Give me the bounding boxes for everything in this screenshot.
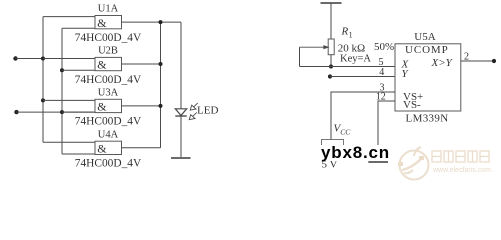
svg-text:Key=A: Key=A bbox=[340, 53, 371, 64]
wire rail to R1 top bbox=[330, 3, 332, 39]
node A input terminal dot bbox=[13, 56, 17, 60]
wire U3A bottom input pin (part of net B) bbox=[62, 111, 95, 113]
wire net A horizontal bbox=[16, 58, 96, 60]
watermark ybx8.cn bbox=[321, 145, 390, 161]
potentiometer R1 body bbox=[328, 39, 334, 55]
wire U3A output bbox=[122, 105, 161, 107]
svg-text:CC: CC bbox=[340, 127, 351, 136]
VCC source box bbox=[322, 140, 344, 158]
potentiometer R1 wiper arrow bbox=[300, 46, 329, 49]
junction bus2 x U2B bottom pin bbox=[60, 68, 64, 72]
svg-text:74HC00D_4V: 74HC00D_4V bbox=[75, 158, 142, 170]
power rail bar top of R1 bbox=[321, 2, 342, 4]
junction R1 bottom x pin5 wire bbox=[329, 65, 333, 69]
svg-text:4: 4 bbox=[379, 67, 384, 78]
wire U3A top input pin bbox=[43, 99, 95, 101]
wire U1A top input pin bbox=[43, 16, 95, 18]
elecfans logo chinese characters bbox=[432, 151, 489, 162]
gate U3A box bbox=[95, 99, 122, 112]
svg-text:X>Y: X>Y bbox=[431, 57, 454, 69]
junction U3A output x bus3 bbox=[159, 104, 163, 108]
svg-text:www.elecfans.com: www.elecfans.com bbox=[432, 167, 491, 174]
bus net A vertical bbox=[42, 17, 44, 143]
junction net A x bus1 bbox=[41, 57, 45, 61]
svg-text:U2B: U2B bbox=[98, 46, 118, 57]
svg-text:LM339N: LM339N bbox=[406, 113, 449, 125]
svg-text:Y: Y bbox=[402, 68, 410, 80]
LED emission arrow 1 bbox=[190, 103, 198, 110]
bus net B vertical bbox=[61, 28, 63, 154]
node B input terminal dot bbox=[14, 110, 18, 114]
svg-text:&: & bbox=[97, 58, 107, 72]
wire U2B top input pin (part of net A) bbox=[43, 58, 95, 60]
wire U2B output bbox=[122, 63, 161, 65]
svg-text:LED: LED bbox=[197, 105, 218, 117]
wire net B horizontal bbox=[17, 111, 96, 113]
wire U4A output bbox=[122, 147, 161, 149]
wire U2B bottom input pin bbox=[62, 69, 95, 71]
wire VS- pin 12 bbox=[378, 101, 395, 162]
wire VS+ pin 3 bbox=[331, 92, 395, 140]
gate U4A box bbox=[95, 141, 122, 154]
wire U1A bottom input pin bbox=[62, 27, 95, 29]
ground bar below VS- bbox=[368, 161, 388, 163]
wire R1 bottom terminal bbox=[330, 55, 332, 67]
svg-text:U5A: U5A bbox=[414, 31, 435, 43]
wire to U5A pin 5 (X input) bbox=[300, 66, 396, 68]
svg-text:74HC00D_4V: 74HC00D_4V bbox=[75, 116, 142, 128]
svg-text:UCOMP: UCOMP bbox=[405, 44, 449, 56]
svg-text:R: R bbox=[341, 25, 349, 37]
svg-text:U1A: U1A bbox=[98, 4, 119, 15]
wire U5A output pin 2 bbox=[461, 60, 494, 62]
svg-text:50%: 50% bbox=[374, 41, 394, 53]
wire LED cathode down bbox=[180, 116, 182, 158]
svg-text:VS-: VS- bbox=[403, 99, 421, 111]
LED D1 triangle bbox=[175, 109, 186, 116]
svg-text:74HC00D_4V: 74HC00D_4V bbox=[75, 74, 142, 86]
wire to U5A pin 4 (Y input) bbox=[330, 76, 395, 78]
junction net B x bus2 bbox=[60, 110, 64, 114]
svg-text:74HC00D_4V: 74HC00D_4V bbox=[75, 32, 142, 44]
wire U4A top input pin bbox=[43, 141, 95, 143]
svg-text:&: & bbox=[97, 100, 107, 114]
svg-text:1: 1 bbox=[349, 30, 353, 39]
svg-text:&: & bbox=[97, 16, 107, 30]
svg-text:&: & bbox=[97, 142, 107, 156]
wire U1A output bbox=[122, 21, 182, 23]
gate U1A box bbox=[95, 16, 122, 29]
elecfans logo swirl dots bbox=[398, 156, 424, 166]
node Y stub terminal dot bbox=[328, 74, 332, 78]
LED cathode bar bbox=[175, 115, 186, 117]
LED emission arrow 2 bbox=[189, 112, 197, 119]
svg-text:U4A: U4A bbox=[98, 129, 119, 140]
junction U2B output x bus3 bbox=[159, 62, 163, 66]
bus gate outputs vertical bbox=[160, 22, 162, 148]
wire to LED anode bbox=[180, 22, 182, 109]
ground bar below LED bbox=[171, 157, 191, 159]
gate U2B box bbox=[95, 57, 122, 70]
elecfans logo swirl circle bbox=[400, 147, 429, 180]
junction U1A output x bus3 bbox=[159, 20, 163, 24]
node output terminal dot bbox=[492, 59, 496, 63]
junction bus1 x U3A top pin bbox=[41, 98, 45, 102]
wire U4A bottom input pin bbox=[62, 153, 95, 155]
svg-text:U3A: U3A bbox=[98, 87, 119, 98]
wire wiper down bbox=[299, 47, 301, 66]
comparator U5A box bbox=[395, 44, 461, 111]
